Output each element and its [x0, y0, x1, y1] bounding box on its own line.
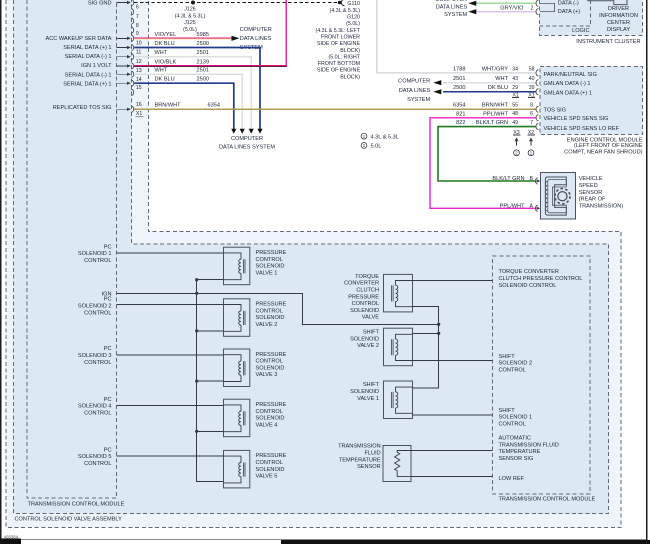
wire DK BLU 2500 pin 10 — [134, 48, 260, 130]
svg-text:PPL/WHT: PPL/WHT — [500, 203, 525, 209]
logic dashed box inside instrument cluster — [540, 0, 591, 26]
svg-text:LOGIC: LOGIC — [572, 28, 589, 34]
svg-text:SOLENOID: SOLENOID — [256, 365, 285, 371]
svg-text:CONTROL: CONTROL — [256, 359, 283, 365]
svg-text:2501: 2501 — [197, 50, 209, 56]
svg-text:(LEFT FRONT OF ENGINE: (LEFT FRONT OF ENGINE — [574, 143, 643, 149]
svg-text:CLUTCH PRESSURE CONTROL: CLUTCH PRESSURE CONTROL — [499, 276, 583, 282]
svg-text:B: B — [530, 176, 534, 182]
wire DK BLU 2500 to computer data lines — [443, 91, 536, 93]
svg-text:DISPLAY: DISPLAY — [607, 27, 630, 33]
svg-text:SOLENOID: SOLENOID — [350, 336, 379, 342]
svg-text:49: 49 — [512, 120, 518, 126]
svg-text:PRESSURE: PRESSURE — [256, 453, 287, 459]
svg-text:SOLENOID: SOLENOID — [256, 315, 285, 321]
instrument cluster box fill — [540, 0, 643, 35]
svg-text:13: 13 — [136, 68, 142, 74]
wire tcc solenoid control — [413, 280, 493, 282]
svg-text:CONTROL: CONTROL — [352, 301, 379, 307]
svg-text:7: 7 — [530, 120, 533, 126]
wire VIO/YEL 5985 pin 9 — [134, 38, 231, 40]
svg-text:SOLENOID 5: SOLENOID 5 — [78, 454, 112, 460]
svg-text:DATA LINES: DATA LINES — [399, 88, 431, 94]
svg-text:2139: 2139 — [197, 59, 209, 65]
svg-text:INFORMATION: INFORMATION — [599, 13, 638, 19]
svg-text:BLK/LT GRN: BLK/LT GRN — [476, 120, 508, 126]
pressure control solenoid valve 1 — [224, 247, 250, 285]
svg-text:VEHICLE: VEHICLE — [579, 176, 603, 182]
svg-text:SERIAL DATA (+) 1: SERIAL DATA (+) 1 — [63, 81, 111, 87]
svg-text:WHT/GRY: WHT/GRY — [482, 66, 509, 72]
wire shift solenoid 2 high side to bus — [413, 332, 439, 334]
svg-text:9: 9 — [136, 31, 139, 37]
svg-text:VALVE 4: VALVE 4 — [256, 422, 278, 428]
svg-text:DRIVER: DRIVER — [608, 6, 629, 12]
vss reluctor core symbol — [545, 177, 566, 215]
svg-text:34: 34 — [512, 66, 518, 72]
svg-text:DATA LINES SYSTEM: DATA LINES SYSTEM — [219, 144, 275, 150]
svg-text:SOLENOID 3: SOLENOID 3 — [78, 353, 112, 359]
svg-text:SOLENOID 1: SOLENOID 1 — [78, 251, 112, 257]
wire DK BLU 2500 pin 14 — [134, 83, 234, 129]
wire WHT 2501 pin 11 — [134, 57, 251, 129]
wire pc solenoid 3 control — [117, 354, 224, 356]
svg-text:2501: 2501 — [453, 76, 465, 82]
svg-text:6: 6 — [530, 111, 533, 117]
svg-text:VIO/BLK: VIO/BLK — [155, 59, 177, 65]
svg-text:BLK/LT GRN: BLK/LT GRN — [492, 176, 524, 182]
svg-text:FRONT LOWER: FRONT LOWER — [321, 35, 360, 41]
svg-text:SHIFT: SHIFT — [499, 408, 516, 414]
svg-text:CONTROL: CONTROL — [256, 409, 283, 415]
svg-text:TORQUE: TORQUE — [355, 274, 379, 280]
transmission control module (right) dashed border — [493, 256, 590, 494]
svg-text:TRANSMISSION FLUID: TRANSMISSION FLUID — [499, 442, 559, 448]
driver information center display box (cropped) — [588, 0, 627, 5]
svg-text:GMLAN DATA (-) 1: GMLAN DATA (-) 1 — [544, 81, 591, 87]
svg-text:VALVE 2: VALVE 2 — [256, 322, 278, 328]
svg-text:TRANSMISSION: TRANSMISSION — [338, 444, 381, 450]
wire WHT 2501 to computer data lines — [443, 82, 536, 84]
svg-text:PRESSURE: PRESSURE — [256, 250, 287, 256]
vss pins A and B — [535, 178, 537, 184]
left window edge — [0, 0, 1, 544]
svg-text:VALVE: VALVE — [362, 315, 379, 321]
svg-text:SOLENOID 1: SOLENOID 1 — [499, 415, 533, 421]
svg-text:PC: PC — [104, 447, 112, 453]
svg-text:11: 11 — [136, 50, 141, 56]
svg-text:SOLENOID 2: SOLENOID 2 — [499, 361, 533, 367]
bus junction dots — [195, 278, 198, 281]
wire BRN/WHT 6354 pin 16 to ECM — [134, 108, 536, 110]
svg-text:CONTROL: CONTROL — [84, 360, 111, 366]
wire ign feed — [117, 293, 439, 324]
svg-text:BLOCK): BLOCK) — [340, 74, 360, 80]
wire WHT/GRY 1788 (exits top) — [377, 0, 536, 73]
svg-text:COMPT, NEAR FAN SHROUD): COMPT, NEAR FAN SHROUD) — [564, 149, 642, 155]
svg-text:(REAR OF: (REAR OF — [579, 197, 606, 203]
bottom scrollbar thumb — [281, 540, 650, 544]
svg-text:SYSTEM: SYSTEM — [407, 97, 430, 103]
torque converter clutch pressure control solenoid valve — [384, 274, 413, 312]
right window edge — [646, 0, 648, 544]
svg-text:TOS SIG: TOS SIG — [544, 107, 567, 113]
engine control module dashed border — [540, 67, 642, 135]
svg-text:A: A — [530, 203, 534, 209]
svg-text:29: 29 — [512, 85, 518, 91]
svg-text:FLUID: FLUID — [365, 451, 381, 457]
svg-text:J125: J125 — [184, 20, 196, 26]
svg-text:2: 2 — [531, 5, 534, 11]
svg-text:BLOCK): BLOCK) — [340, 48, 360, 54]
svg-text:LOW REF: LOW REF — [499, 476, 525, 482]
svg-text:FRONT BOTTOM: FRONT BOTTOM — [318, 61, 360, 67]
pressure control solenoid valve 2 — [224, 299, 250, 337]
instrument cluster pins — [536, 0, 538, 6]
svg-text:48: 48 — [512, 111, 518, 117]
svg-text:43: 43 — [512, 76, 518, 82]
svg-text:VALVE 2: VALVE 2 — [357, 343, 379, 349]
svg-text:BRN/WHT: BRN/WHT — [482, 102, 509, 108]
svg-text:5.0L: 5.0L — [371, 144, 382, 150]
svg-text:PC: PC — [104, 397, 112, 403]
ign bus vertical (left) — [197, 280, 224, 482]
svg-text:COMPUTER: COMPUTER — [398, 79, 430, 85]
svg-text:VIO/YEL: VIO/YEL — [155, 32, 177, 38]
svg-text:WHT: WHT — [495, 76, 508, 82]
svg-text:REPLICATED TOS SIG: REPLICATED TOS SIG — [53, 105, 112, 111]
svg-text:(4.3L & 5.3L: LEFT: (4.3L & 5.3L: LEFT — [315, 28, 360, 34]
svg-text:55: 55 — [512, 103, 518, 109]
svg-text:CONTROL: CONTROL — [256, 308, 283, 314]
svg-text:(5.0L): (5.0L) — [183, 27, 197, 33]
svg-text:SOLENOID CONTROL: SOLENOID CONTROL — [499, 283, 557, 289]
svg-text:CONTROL: CONTROL — [499, 421, 526, 427]
svg-text:TRANSMISSION): TRANSMISSION) — [579, 204, 624, 210]
svg-text:40: 40 — [529, 76, 535, 82]
svg-text:SOLENOID 4: SOLENOID 4 — [78, 404, 112, 410]
wire BLK/LT GRN 822 to vehicle speed sensor pin B — [438, 127, 536, 181]
bus junction dots (right) — [437, 323, 440, 326]
vss toothed wheel — [555, 189, 570, 204]
svg-text:CLUTCH: CLUTCH — [356, 288, 379, 294]
svg-text:2500: 2500 — [197, 77, 209, 83]
svg-text:SIDE OF ENGINE: SIDE OF ENGINE — [317, 41, 360, 47]
svg-text:G110: G110 — [347, 1, 360, 7]
svg-text:TEMPERATURE: TEMPERATURE — [499, 449, 541, 455]
svg-text:CONTROL: CONTROL — [499, 367, 526, 373]
svg-text:8: 8 — [530, 103, 533, 109]
shift solenoid valve 1 — [384, 381, 413, 419]
svg-text:SENSOR SIG: SENSOR SIG — [499, 456, 534, 462]
svg-text:CONTROL SOLENOID VALVE ASSEMBL: CONTROL SOLENOID VALVE ASSEMBLY — [15, 517, 123, 523]
svg-text:6354: 6354 — [208, 103, 220, 109]
vehicle speed sensor box — [540, 172, 575, 219]
vss pickup coil — [545, 182, 547, 211]
svg-text:SHIFT: SHIFT — [363, 382, 380, 388]
ECM pin brackets — [536, 70, 538, 76]
wire shift solenoid 2 control — [413, 360, 493, 362]
svg-text:TEMPERATURE: TEMPERATURE — [339, 457, 381, 463]
svg-text:822: 822 — [456, 120, 465, 126]
svg-text:DATA (-): DATA (-) — [558, 0, 579, 6]
splice J126/J125 — [191, 1, 195, 5]
wire DATA (-) pale green to computer data lines — [476, 2, 536, 4]
svg-text:COMPUTER: COMPUTER — [231, 136, 263, 142]
svg-text:ACC WAKEUP SER DATA: ACC WAKEUP SER DATA — [46, 36, 112, 42]
svg-text:CONTROL: CONTROL — [256, 257, 283, 263]
legend engine codes — [361, 133, 367, 139]
svg-text:6354: 6354 — [453, 102, 465, 108]
wire transmission fluid temp sensor sig — [411, 450, 492, 452]
svg-text:PRESSURE: PRESSURE — [256, 352, 287, 358]
svg-text:VALVE 1: VALVE 1 — [256, 270, 278, 276]
svg-text:SOLENOID: SOLENOID — [256, 416, 285, 422]
four down arrows to computer data lines system — [231, 129, 236, 134]
svg-text:8: 8 — [136, 23, 139, 29]
svg-text:VALVE 1: VALVE 1 — [357, 396, 379, 402]
svg-text:1788: 1788 — [453, 66, 465, 72]
svg-text:2500: 2500 — [453, 85, 465, 91]
vehicle speed sensor box fill — [540, 172, 575, 219]
svg-text:15: 15 — [136, 85, 142, 91]
svg-text:2500: 2500 — [197, 41, 209, 47]
svg-text:TRANSMISSION CONTROL MODULE: TRANSMISSION CONTROL MODULE — [499, 497, 596, 503]
svg-text:SOLENOID: SOLENOID — [256, 264, 285, 270]
svg-text:DATA LINES: DATA LINES — [436, 4, 468, 10]
svg-text:SOLENOID: SOLENOID — [256, 467, 285, 473]
svg-text:DK BLU: DK BLU — [488, 85, 508, 91]
svg-text:PARK/NEUTRAL SIG: PARK/NEUTRAL SIG — [544, 72, 597, 78]
svg-text:4.3L & 5.3L: 4.3L & 5.3L — [371, 134, 399, 140]
svg-text:821: 821 — [456, 111, 465, 117]
svg-text:PPL/WHT: PPL/WHT — [483, 111, 508, 117]
wire pc solenoid 1 control — [117, 252, 224, 254]
svg-text:SYSTEM: SYSTEM — [444, 12, 467, 18]
wire transmission fluid temp sensor low ref — [411, 476, 492, 478]
svg-text:VALVE 3: VALVE 3 — [256, 372, 278, 378]
wire WHT 2501 pin 13 — [134, 74, 242, 129]
svg-text:PRESSURE: PRESSURE — [256, 302, 287, 308]
svg-text:(5.0L): (5.0L) — [346, 21, 360, 27]
svg-text:SENSOR: SENSOR — [357, 464, 381, 470]
svg-text:10: 10 — [136, 40, 142, 46]
svg-text:SOLENOID: SOLENOID — [350, 308, 379, 314]
pressure control solenoid valve 3 — [224, 349, 250, 387]
svg-text:SPEED: SPEED — [579, 183, 598, 189]
svg-text:IGN 1 VOLT: IGN 1 VOLT — [81, 63, 112, 69]
wire pc solenoid 5 control — [117, 455, 224, 457]
svg-text:SENSOR: SENSOR — [579, 190, 603, 196]
bottom left scrollbar corner — [0, 538, 21, 544]
svg-text:CONTROL: CONTROL — [84, 258, 111, 264]
svg-text:16: 16 — [136, 102, 142, 108]
ground G110/G120 terminal — [338, 1, 342, 5]
svg-text:DK BLU: DK BLU — [155, 77, 175, 83]
pressure control solenoid valve 4 — [224, 399, 250, 437]
svg-text:CONTROL: CONTROL — [256, 460, 283, 466]
svg-text:TORQUE CONVERTER: TORQUE CONVERTER — [499, 269, 559, 275]
shift solenoid valve 2 — [384, 328, 413, 366]
svg-text:7: 7 — [136, 14, 139, 20]
svg-text:CONTROL: CONTROL — [84, 461, 111, 467]
wire VIO/BLK 2139 pin 12 (exits top) — [134, 65, 287, 67]
svg-text:GRY/VIO: GRY/VIO — [500, 5, 524, 11]
svg-text:CENTER: CENTER — [607, 20, 630, 26]
wire tcc solenoid low side to bus — [413, 307, 439, 388]
svg-text:DATA (+): DATA (+) — [558, 9, 580, 15]
svg-text:GMLAN DATA (+) 1: GMLAN DATA (+) 1 — [544, 91, 592, 97]
svg-text:SIDE OF ENGINE: SIDE OF ENGINE — [317, 68, 360, 74]
svg-text:PRESSURE: PRESSURE — [348, 294, 379, 300]
svg-text:G120: G120 — [347, 15, 360, 21]
svg-text:CONVERTER: CONVERTER — [344, 281, 379, 287]
svg-text:SHIFT: SHIFT — [499, 354, 516, 360]
transmission fluid temperature sensor — [383, 446, 411, 482]
svg-text:PC: PC — [104, 297, 112, 303]
wire DATA (+) GRY/VIO 2 — [476, 11, 536, 13]
svg-text:PC: PC — [104, 244, 112, 250]
logic box stubs — [540, 3, 555, 11]
svg-text:(5.0L: RIGHT: (5.0L: RIGHT — [329, 54, 361, 60]
svg-text:SERIAL DATA (-) 1: SERIAL DATA (-) 1 — [65, 72, 112, 78]
pressure control solenoid valve 5 — [224, 450, 250, 488]
transmission control module (left) dashed border — [27, 0, 117, 498]
engine control module box fill — [540, 67, 642, 135]
svg-text:SIG GND: SIG GND — [88, 1, 112, 7]
svg-text:14: 14 — [136, 77, 142, 83]
svg-text:TRANSMISSION CONTROL MODULE: TRANSMISSION CONTROL MODULE — [28, 502, 125, 508]
svg-text:6: 6 — [136, 5, 139, 11]
svg-text:DATA LINES: DATA LINES — [240, 36, 272, 42]
svg-text:CONTROL: CONTROL — [84, 310, 111, 316]
bottom scrollbar track line — [0, 539, 646, 541]
wire SIG GND (dashed black ground wire) — [134, 2, 338, 4]
svg-text:WHT: WHT — [155, 68, 168, 74]
svg-text:2501: 2501 — [197, 68, 209, 74]
wire PPL/WHT 821 to vehicle speed sensor pin A — [430, 118, 536, 209]
svg-text:5985: 5985 — [197, 32, 209, 38]
svg-text:COMPUTER: COMPUTER — [435, 0, 467, 3]
wire shift solenoid 1 control — [413, 414, 493, 416]
svg-text:58: 58 — [529, 66, 535, 72]
svg-text:INSTRUMENT CLUSTER: INSTRUMENT CLUSTER — [576, 39, 640, 45]
svg-text:AUTOMATIC: AUTOMATIC — [499, 436, 531, 442]
wire pc solenoid 2 control — [117, 304, 224, 306]
svg-text:39: 39 — [529, 85, 535, 91]
svg-text:PC: PC — [104, 346, 112, 352]
svg-text:SOLENOID: SOLENOID — [350, 389, 379, 395]
svg-text:VALVE 5: VALVE 5 — [256, 474, 278, 480]
svg-text:SOLENOID 2: SOLENOID 2 — [78, 304, 112, 310]
svg-text:WHT: WHT — [155, 50, 168, 56]
wire pc solenoid 4 control — [117, 404, 224, 406]
svg-text:VEHICLE SPD SENS SIG: VEHICLE SPD SENS SIG — [544, 116, 609, 122]
svg-text:(4.3L & 5.3L): (4.3L & 5.3L) — [330, 8, 361, 14]
instrument cluster dashed border — [540, 0, 643, 35]
svg-text:COMPUTER: COMPUTER — [240, 27, 272, 33]
solenoid low-side stubs to bus — [197, 279, 224, 281]
svg-text:PRESSURE: PRESSURE — [256, 402, 287, 408]
svg-text:SERIAL DATA (-) 1: SERIAL DATA (-) 1 — [65, 54, 112, 60]
svg-text:BRN/WHT: BRN/WHT — [155, 103, 182, 109]
svg-text:(4.3L & 5.3L): (4.3L & 5.3L) — [175, 13, 206, 19]
svg-text:CONTROL: CONTROL — [84, 410, 111, 416]
svg-text:SERIAL DATA (+) 1: SERIAL DATA (+) 1 — [63, 45, 111, 51]
TCM X1 connector pins 6-16 — [117, 2, 128, 4]
svg-text:DK BLU: DK BLU — [155, 41, 175, 47]
svg-text:SHIFT: SHIFT — [363, 330, 380, 336]
svg-text:VEHICLE SPD SENS LO REF: VEHICLE SPD SENS LO REF — [544, 126, 620, 132]
svg-text:12: 12 — [136, 59, 142, 65]
svg-text:J126: J126 — [184, 7, 196, 13]
